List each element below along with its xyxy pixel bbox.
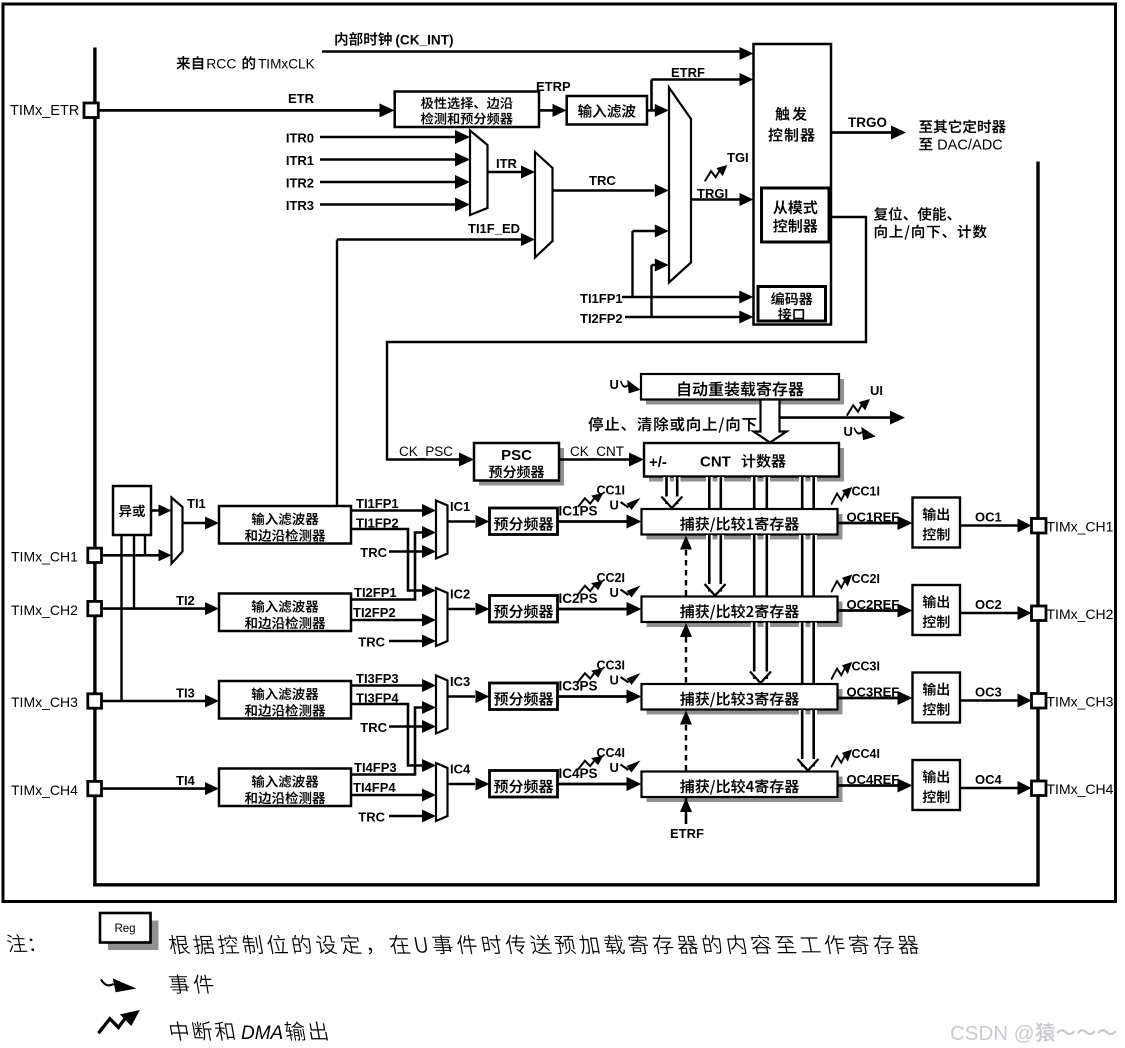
interrupt CC1I (right) — [831, 487, 852, 505]
wire TRC stub row 1 — [389, 550, 422, 553]
wire CK_INT — [322, 50, 740, 53]
wire IC2PS — [558, 608, 628, 611]
svg-text:CC2I: CC2I — [852, 572, 880, 586]
svg-text:TRC: TRC — [360, 720, 387, 735]
wire IC3PS — [558, 695, 628, 698]
bus arrow into CC2 register — [705, 584, 726, 596]
block: 预分频器 row 3 — [490, 683, 558, 710]
wire TI3FP4 (down to IC4 mux) — [351, 704, 422, 766]
svg-text:TI2FP1: TI2FP1 — [354, 585, 397, 600]
label 复位、使能、向上/向下、计数 — [874, 207, 952, 221]
wire: filter to trigger mux — [647, 109, 656, 112]
wire ITR3 — [320, 203, 456, 206]
svg-text:OC3: OC3 — [975, 685, 1002, 700]
svg-text:IC1: IC1 — [450, 499, 470, 514]
svg-text:TI4: TI4 — [176, 773, 196, 788]
svg-text:RCC: RCC — [206, 56, 236, 72]
svg-text:ITR0: ITR0 — [286, 131, 314, 146]
wire from TIMx_CH4 — [102, 787, 206, 790]
svg-text:TI3: TI3 — [176, 686, 195, 701]
svg-text:ITR3: ITR3 — [286, 198, 314, 213]
wire IC2 — [448, 608, 476, 611]
legend text 中断和DMA输出 — [169, 1021, 235, 1040]
bus lines crossing register shadows — [706, 535, 713, 541]
svg-text:TRC: TRC — [358, 810, 385, 825]
block: 自动重装载寄存器 (auto-reload register) — [646, 379, 844, 405]
interrupt UI — [847, 399, 870, 416]
svg-text:U: U — [610, 377, 619, 392]
svg-text:TRGI: TRGI — [697, 186, 728, 201]
mux: TI1 xor selector — [172, 498, 183, 564]
svg-text:TRC: TRC — [360, 545, 387, 560]
wire TI3FP3 — [351, 684, 422, 687]
wire IC4PS — [558, 783, 628, 786]
svg-text:TI1FP1: TI1FP1 — [580, 291, 623, 306]
interrupt CC1I (left) — [578, 493, 604, 507]
svg-text:TIMx_CH1: TIMx_CH1 — [11, 549, 78, 565]
svg-text:IC3: IC3 — [450, 674, 470, 689]
interrupt CC2I (right) — [831, 575, 852, 593]
wire: slave mode control line to prescaler — [387, 217, 866, 460]
mux: TRC selector — [535, 152, 553, 258]
wire from TIMx_CH1 — [102, 554, 159, 557]
svg-text:ITR1: ITR1 — [286, 153, 314, 168]
svg-text:ETRF: ETRF — [670, 826, 704, 841]
svg-text:IC4: IC4 — [450, 762, 471, 777]
wire ETRF (bottom) — [685, 798, 688, 824]
legend text 根据控制位... — [168, 935, 920, 955]
wire from TIMx_CH2 — [102, 607, 206, 610]
label 来自RCC的TIMxCLK — [176, 56, 203, 70]
wire TI2FP2 — [351, 619, 422, 622]
legend 注： — [6, 934, 35, 952]
svg-text:TI3FP3: TI3FP3 — [356, 671, 399, 686]
wire TRC stub row 2 — [389, 640, 422, 643]
svg-text:TI3FP4: TI3FP4 — [356, 691, 399, 706]
svg-text:TI1FP1: TI1FP1 — [356, 496, 399, 511]
wire ITR1 — [320, 158, 456, 161]
wire IC1PS — [558, 520, 628, 523]
wire TRC stub row 4 — [389, 815, 422, 818]
svg-text:TIMx_CH4: TIMx_CH4 — [11, 782, 78, 798]
svg-text:U: U — [844, 424, 853, 439]
wire TRGO — [831, 131, 892, 134]
block: 输入滤波器和边沿检测器 row 1 — [219, 506, 351, 544]
svg-text:OC1: OC1 — [975, 510, 1002, 525]
svg-text:TIMx_CH3: TIMx_CH3 — [11, 694, 78, 710]
wire: XOR output to TI1 mux — [151, 509, 159, 512]
wire TRGI — [691, 198, 740, 201]
interrupt CC3I (right) — [831, 662, 852, 680]
wire: bottom bus — [93, 883, 1039, 886]
bus arrow into CC3 register — [750, 672, 771, 684]
svg-text:TI2FP2: TI2FP2 — [580, 311, 623, 326]
bus arrow into CC1 register — [661, 497, 682, 509]
label 停止、清除或向上/向下 — [588, 417, 756, 433]
pad TIMx_CH4 (right) — [1032, 781, 1047, 796]
svg-text:IC2PS: IC2PS — [559, 591, 598, 606]
block: 输出控制 (output control) 1 — [913, 498, 961, 548]
block: 极性选择、边沿检测和预分频器 — [395, 92, 539, 128]
legend interrupt symbol — [98, 1010, 139, 1033]
block: 捕获/比较2寄存器 — [647, 602, 843, 628]
block: 输入滤波 (input filter) — [567, 96, 647, 125]
block: 输入滤波器和边沿检测器 row 4 — [219, 769, 351, 807]
legend event symbol — [101, 978, 136, 992]
svg-text:TIMx_CH1: TIMx_CH1 — [1047, 519, 1114, 535]
svg-text:TRC: TRC — [589, 173, 616, 188]
pad TIMx_CH3 (right) — [1032, 694, 1047, 709]
svg-text:ETR: ETR — [288, 91, 315, 106]
block: PSC 预分频器 (prescaler) — [479, 448, 564, 486]
svg-text:U: U — [610, 585, 619, 600]
wire ITR — [488, 171, 522, 174]
wire: ETRF dashed feedback — [685, 550, 687, 596]
wire ETR — [98, 109, 381, 112]
svg-text:U: U — [610, 498, 619, 513]
svg-text:TI2: TI2 — [176, 593, 195, 608]
svg-text:U: U — [610, 673, 619, 688]
wire ITR0 — [320, 136, 456, 139]
svg-text:IC3PS: IC3PS — [559, 679, 598, 694]
svg-text:CC4I: CC4I — [597, 746, 625, 760]
svg-text:+/-: +/- — [649, 454, 667, 471]
wire from TIMx_CH3 — [102, 700, 206, 703]
svg-text:TI1: TI1 — [187, 496, 206, 511]
svg-text:TI4FP4: TI4FP4 — [353, 780, 396, 795]
svg-text:CC3I: CC3I — [852, 660, 880, 674]
wire ETRF (tap up to trigger controller) — [650, 80, 653, 111]
svg-text:(CK_INT): (CK_INT) — [395, 33, 453, 48]
svg-text:TGI: TGI — [727, 150, 749, 165]
svg-text:ETRF: ETRF — [671, 65, 705, 80]
wire TI1 — [183, 522, 206, 525]
svg-text:TIMx_CH2: TIMx_CH2 — [1047, 606, 1114, 622]
svg-text:TIMxCLK: TIMxCLK — [258, 57, 315, 72]
block: 触发控制器 (trigger controller) — [754, 44, 832, 325]
block: 预分频器 row 4 — [490, 771, 558, 798]
svg-text:TIMx_CH3: TIMx_CH3 — [1047, 694, 1114, 710]
wire: XOR inputs from CH1/CH2/CH3 — [120, 535, 122, 701]
block: 输出控制 (output control) 2 — [913, 585, 961, 635]
svg-text:U: U — [610, 760, 619, 775]
interrupt CC2I (left) — [578, 581, 604, 595]
block: 预分频器 row 1 — [490, 508, 558, 535]
wire TI1FP1 — [351, 509, 422, 512]
svg-text:OC2: OC2 — [975, 597, 1002, 612]
svg-text:TRGO: TRGO — [848, 115, 887, 130]
svg-text:TIMx_CH2: TIMx_CH2 — [11, 602, 78, 618]
svg-text:CK_CNT: CK_CNT — [570, 444, 624, 459]
wire TI1FP2 (down to IC2 mux) — [351, 529, 422, 591]
wire: ARR to CNT (hollow arrow) — [754, 400, 787, 443]
svg-text:TI1FP2: TI1FP2 — [356, 516, 399, 531]
mux: IC4 selector — [436, 763, 448, 821]
svg-text:TRC: TRC — [358, 635, 385, 650]
svg-text:TIMx_ETR: TIMx_ETR — [10, 103, 79, 119]
svg-text:TIMx_CH4: TIMx_CH4 — [1047, 781, 1114, 797]
block: 捕获/比较4寄存器 — [647, 777, 843, 803]
wire CK_CNT — [559, 458, 630, 461]
wire TRC stub row 3 — [389, 725, 422, 728]
mux: trigger input selector — [669, 88, 691, 283]
block: 从模式控制器 (slave mode controller) — [762, 188, 830, 242]
mux: IC1 selector — [436, 501, 448, 559]
svg-text:CC3I: CC3I — [597, 659, 625, 673]
svg-text:TI4FP3: TI4FP3 — [354, 760, 397, 775]
block: 异或 (XOR) — [113, 486, 151, 535]
interrupt CC3I (left) — [578, 668, 604, 682]
wire TI4FP4 — [351, 794, 422, 797]
svg-text:CNT: CNT — [700, 454, 731, 471]
mux: ITR selector — [470, 131, 488, 216]
svg-text:DMA: DMA — [241, 1023, 283, 1044]
wire TI1F_ED — [336, 240, 338, 506]
label 至其它定时器 / 至DAC/ADC — [919, 120, 1006, 134]
pad TIMx_CH1 (right) — [1032, 519, 1047, 534]
svg-text:CC4I: CC4I — [852, 747, 880, 761]
svg-text:TI2FP2: TI2FP2 — [353, 605, 396, 620]
block: 输出控制 (output control) 3 — [913, 673, 961, 723]
wire TI4FP3 (up to IC3 mux) — [351, 708, 422, 775]
svg-text:UI: UI — [870, 383, 883, 398]
mux: IC3 selector — [436, 676, 448, 734]
svg-text:ETRP: ETRP — [536, 79, 571, 94]
wire IC1 — [448, 520, 476, 523]
svg-text:OC4: OC4 — [975, 772, 1003, 787]
pad TIMx_CH2 (right) — [1032, 606, 1047, 621]
block: 预分频器 row 2 — [490, 596, 558, 623]
svg-text:TI1F_ED: TI1F_ED — [468, 221, 520, 236]
svg-text:IC4PS: IC4PS — [559, 766, 598, 781]
block: 输出控制 (output control) 4 — [913, 760, 961, 810]
block: CNT 计数器 (counter) — [649, 448, 844, 482]
svg-text:DAC/ADC: DAC/ADC — [937, 138, 1003, 154]
svg-text:ITR2: ITR2 — [286, 176, 314, 191]
svg-text:PSC: PSC — [501, 447, 532, 464]
bus: CNT to capture/compare registers (4 double-line arrows) — [663, 477, 670, 483]
svg-text:CSDN @: CSDN @ — [950, 1022, 1035, 1045]
svg-text:CC1I: CC1I — [852, 485, 880, 499]
block: 编码器接口 (encoder interface) — [758, 287, 826, 322]
wire: U event line — [780, 416, 892, 419]
wire TI2FP1 (up to IC1 mux) — [351, 533, 422, 600]
svg-text:IC2: IC2 — [450, 587, 470, 602]
bus arrow into CC4 register — [797, 759, 818, 771]
svg-text:ITR: ITR — [496, 156, 518, 171]
wire IC4 — [448, 783, 476, 786]
legend Reg box — [108, 921, 159, 951]
block: 捕获/比较3寄存器 — [647, 689, 843, 715]
wire TI1FP1 to trigger/encoder — [622, 296, 740, 298]
svg-text:CC2I: CC2I — [597, 571, 625, 585]
wire ITR2 — [320, 181, 456, 184]
svg-text:CC1I: CC1I — [597, 484, 625, 498]
interrupt CC4I (left) — [578, 756, 604, 770]
svg-text:CK_PSC: CK_PSC — [399, 444, 453, 459]
label 内部时钟 (CK_INT) — [335, 32, 391, 46]
svg-text:IC1PS: IC1PS — [559, 504, 598, 519]
wire: left input bus — [93, 48, 96, 887]
svg-text:Reg: Reg — [114, 923, 135, 935]
wire TRC — [553, 189, 655, 192]
block: 输入滤波器和边沿检测器 row 3 — [219, 681, 351, 719]
interrupt CC4I (right) — [831, 750, 852, 768]
mux: IC2 selector — [436, 588, 448, 646]
block: 捕获/比较1寄存器 — [647, 514, 843, 540]
interrupt TGI — [705, 165, 728, 181]
block: 输入滤波器和边沿检测器 row 2 — [219, 594, 351, 632]
wire TI2FP2 to trigger/encoder — [625, 316, 740, 318]
wire: right output bus — [1036, 162, 1039, 887]
wire IC3 — [448, 695, 476, 698]
